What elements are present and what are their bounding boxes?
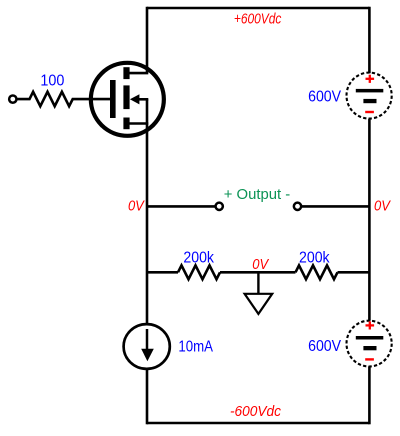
svg-text:+ Output -: + Output -	[224, 187, 291, 203]
input terminal	[9, 95, 16, 102]
svg-text:+600Vdc: +600Vdc	[234, 12, 282, 28]
battery B1 dashed envelope	[347, 73, 392, 119]
wire: output left	[147, 205, 215, 208]
MOSFET gate bar	[110, 80, 116, 118]
svg-text:0V: 0V	[128, 199, 145, 215]
battery B2 long plate	[356, 336, 384, 340]
MOSFET body arrow	[130, 94, 140, 104]
MOSFET Q1 envelope circle	[91, 63, 164, 136]
wire: left vertical (drain to top rail)	[146, 7, 149, 73]
svg-text:200k: 200k	[299, 250, 330, 267]
wire: output right	[301, 205, 369, 208]
MOSFET source wire	[129, 122, 148, 125]
svg-text:10mA: 10mA	[178, 338, 213, 355]
resistor R2 200k	[178, 265, 220, 279]
svg-text:200k: 200k	[183, 249, 214, 266]
ground symbol	[245, 294, 273, 314]
MOSFET channel middle segment	[123, 85, 129, 109]
wire: divider middle	[220, 271, 296, 274]
resistor R3 200k	[296, 265, 338, 279]
ground stub wire	[257, 272, 259, 294]
resistor R1 100	[17, 92, 112, 106]
svg-text:600V: 600V	[308, 338, 342, 355]
MOSFET body wire	[139, 98, 149, 101]
battery B2 dashed envelope	[347, 321, 392, 367]
battery B1 long plate	[356, 89, 384, 93]
svg-text:0V: 0V	[252, 257, 269, 273]
wire: divider right lead	[338, 271, 370, 274]
current source I1	[124, 324, 170, 369]
output terminal right	[294, 203, 301, 210]
output terminal left	[216, 203, 223, 210]
wire: divider left lead	[147, 271, 178, 274]
wire: right vertical (B1 to battery B2)	[368, 119, 371, 321]
svg-text:100: 100	[40, 73, 64, 90]
battery B1 minus sign	[365, 111, 374, 113]
wire: right vertical (B2 to bottom rail)	[368, 366, 371, 424]
wire: right vertical (top rail to battery B1)	[368, 7, 371, 74]
wire: left vertical (source down to current source)	[146, 124, 149, 325]
battery B1 short plate	[363, 99, 376, 103]
wire: left vertical (current source to bottom rail)	[146, 369, 149, 424]
battery B2 plus sign	[366, 321, 375, 329]
svg-text:600V: 600V	[308, 89, 342, 106]
MOSFET channel top segment	[123, 67, 129, 79]
MOSFET drain wire	[129, 72, 148, 75]
MOSFET channel bottom segment	[123, 118, 129, 130]
battery B1 plus sign	[366, 75, 375, 83]
battery B2 minus sign	[365, 358, 374, 360]
svg-text:0V: 0V	[374, 199, 391, 215]
wire: top rail	[147, 7, 369, 10]
current source arrow	[146, 329, 149, 352]
battery B2 short plate	[363, 346, 376, 350]
wire: bottom rail	[147, 422, 369, 425]
svg-text:-600Vdc: -600Vdc	[230, 404, 282, 420]
